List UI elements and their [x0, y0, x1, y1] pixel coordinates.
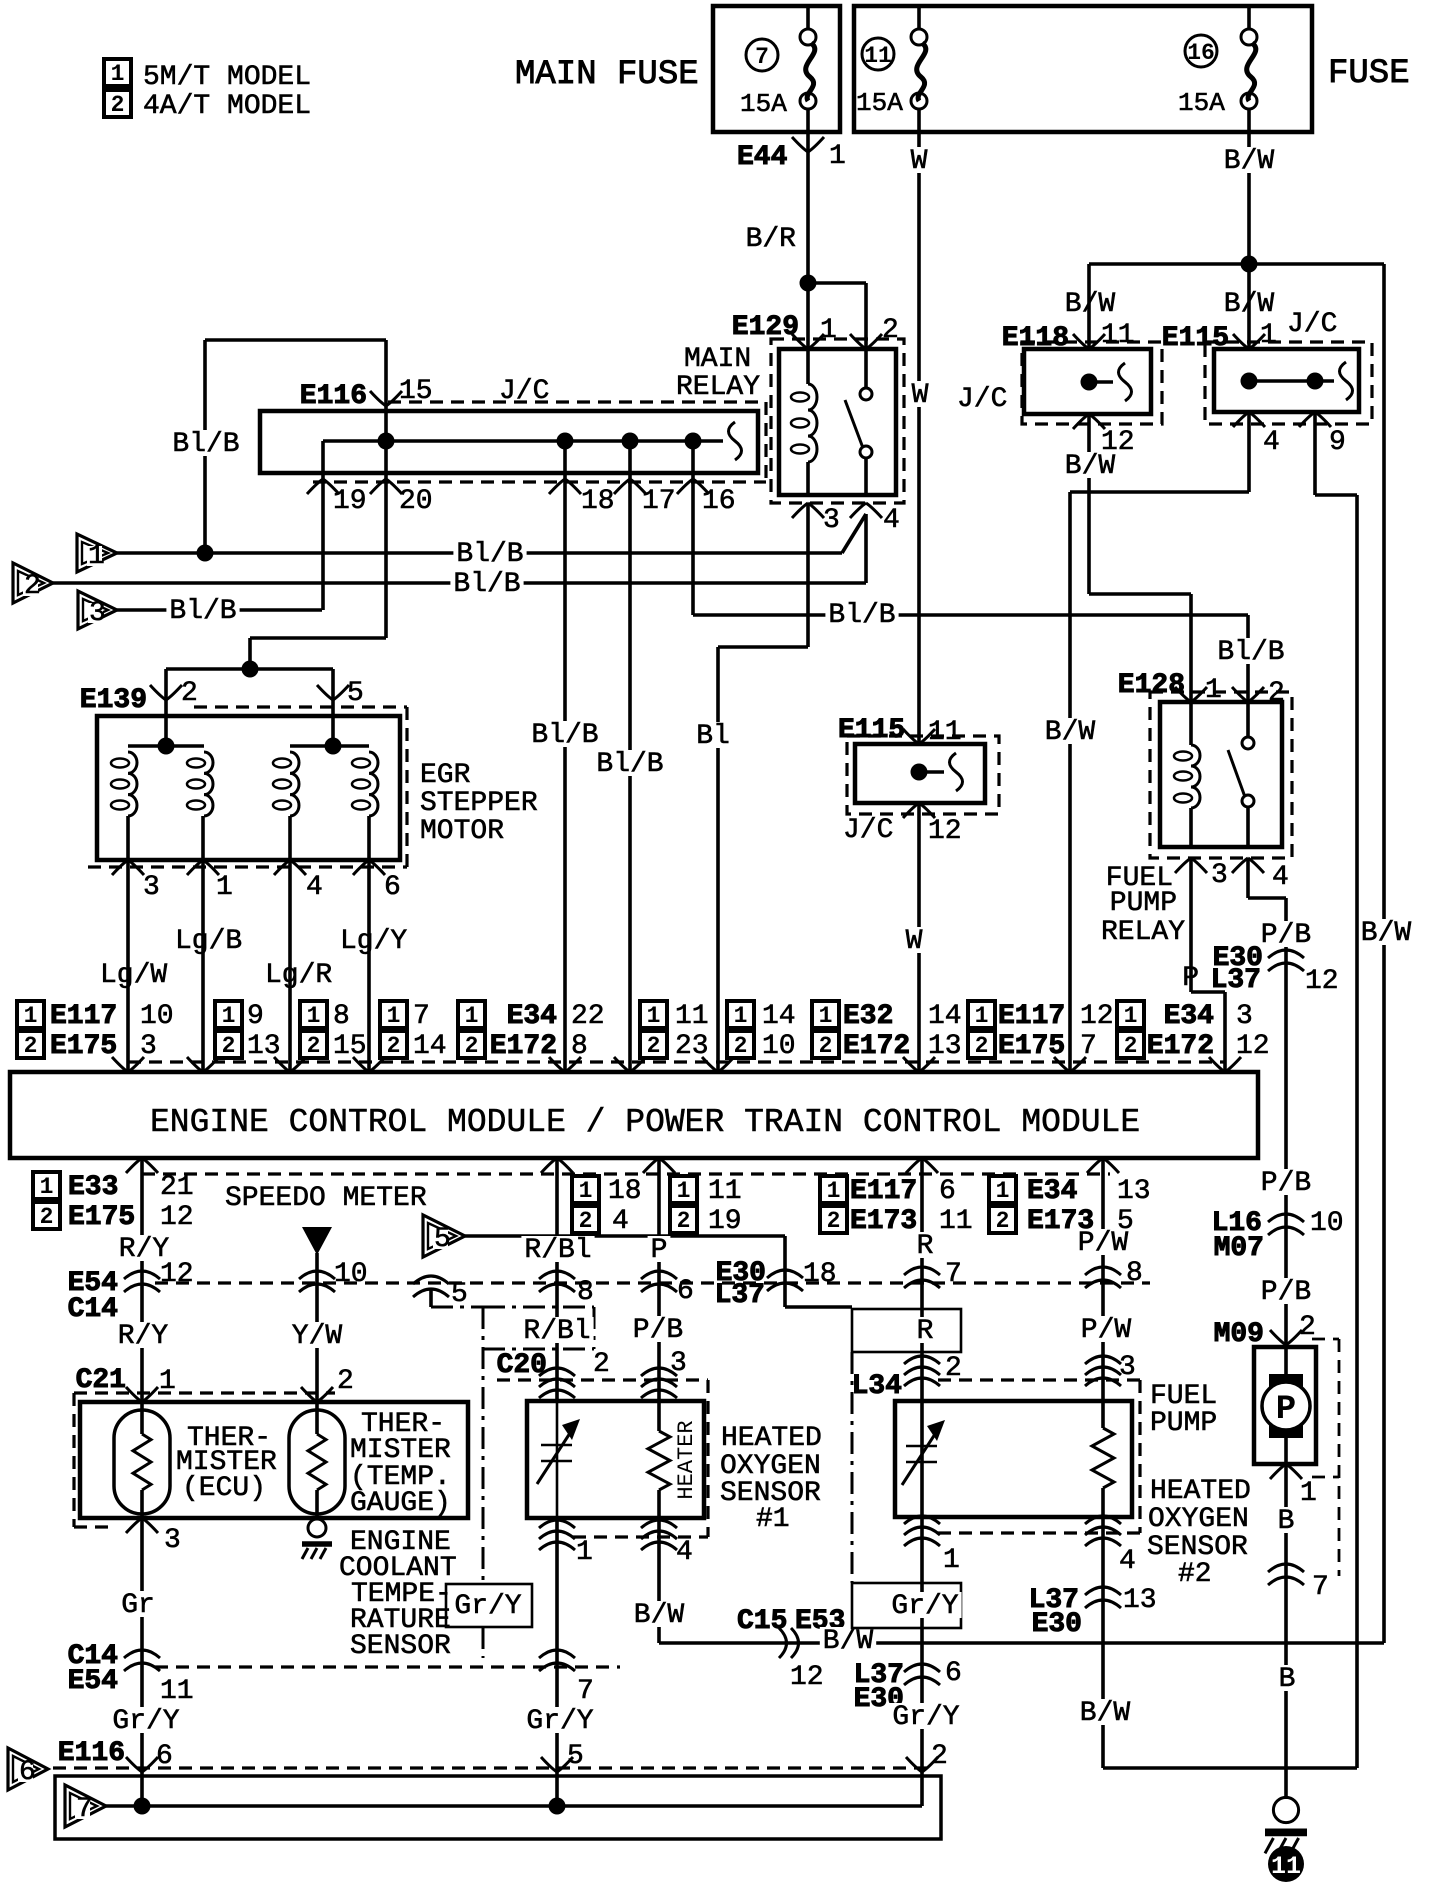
svg-text:#1: #1	[756, 1504, 790, 1535]
svg-text:HEATED: HEATED	[1150, 1476, 1251, 1507]
svg-text:R: R	[917, 1231, 934, 1262]
svg-text:(ECU): (ECU)	[182, 1473, 266, 1504]
ECM top pin at x=630	[614, 1057, 646, 1072]
svg-text:SENSOR: SENSOR	[350, 1631, 451, 1662]
ECM top pin group 9/13	[215, 1001, 242, 1028]
wire R/Bl ECM to HO2S1	[555, 1158, 559, 1401]
svg-text:3: 3	[823, 505, 840, 536]
svg-text:7: 7	[1312, 1572, 1329, 1603]
svg-text:1: 1	[647, 1003, 661, 1029]
ECM top pin group 14/10	[727, 1001, 754, 1028]
pump pin 1	[1270, 1464, 1302, 1479]
svg-text:5: 5	[347, 678, 364, 709]
wire pin19 / triangle 3	[321, 441, 325, 610]
node: B/W branch at y264	[1241, 256, 1258, 273]
B/W bus to right edge	[659, 1641, 1384, 1645]
HO2S2 heater resistor	[1101, 1158, 1105, 1428]
svg-text:P: P	[1276, 1391, 1296, 1429]
svg-text:E30: E30	[1032, 1609, 1082, 1640]
ECM top connector dashed line	[128, 1060, 1225, 1063]
thermistor (ECU)	[114, 1410, 170, 1514]
svg-text:E139: E139	[80, 685, 147, 716]
svg-text:12: 12	[928, 816, 962, 847]
ECM bottom pin at x=1103	[1087, 1158, 1119, 1173]
svg-text:FUSE: FUSE	[1328, 55, 1410, 93]
svg-text:HEATER: HEATER	[674, 1420, 699, 1499]
wire P/W ECM to HO2S2 heater	[1075, 1229, 1131, 1255]
connector pin 7	[904, 1267, 940, 1275]
svg-text:B/W: B/W	[1224, 289, 1275, 320]
ECM top pin at x=718	[702, 1057, 734, 1072]
svg-text:Y/W: Y/W	[292, 1321, 343, 1352]
svg-text:11: 11	[1271, 1852, 1301, 1881]
svg-text:6: 6	[677, 1276, 694, 1307]
main fuse box	[713, 6, 840, 132]
wire Bl/B line 1	[117, 551, 842, 555]
svg-text:R/Bl: R/Bl	[523, 1316, 590, 1347]
svg-text:4A/T MODEL: 4A/T MODEL	[143, 91, 311, 122]
svg-text:14: 14	[762, 1001, 796, 1032]
svg-text:Gr/Y: Gr/Y	[454, 1591, 521, 1622]
svg-text:E117: E117	[50, 1001, 117, 1032]
svg-text:B/W: B/W	[1361, 918, 1412, 949]
HO2S1 pins 1 4	[539, 1520, 575, 1528]
svg-text:4: 4	[1119, 1546, 1136, 1577]
wire B/W bus at y492	[1247, 412, 1251, 492]
svg-text:P/B: P/B	[1261, 920, 1311, 951]
svg-text:18: 18	[581, 486, 615, 517]
svg-text:3: 3	[1119, 1352, 1136, 1383]
svg-text:B: B	[1279, 1664, 1296, 1695]
svg-text:C21: C21	[76, 1365, 126, 1396]
svg-text:7: 7	[1080, 1031, 1097, 1062]
link triangle 7	[65, 1785, 106, 1827]
wire E115 pin9 B/W right drop	[1313, 412, 1317, 495]
svg-text:2: 2	[975, 1033, 989, 1059]
ECM top pin group 11/23	[640, 1001, 667, 1028]
ECM top pin group E34-22/E172-8	[458, 1001, 485, 1028]
svg-text:1: 1	[819, 1003, 833, 1029]
svg-text:17: 17	[642, 486, 676, 517]
svg-text:Gr/Y: Gr/Y	[526, 1706, 593, 1737]
svg-text:3: 3	[143, 872, 160, 903]
ECM bottom group 18/4	[572, 1176, 599, 1203]
connector pin 10	[299, 1271, 335, 1279]
svg-text:2: 2	[40, 1204, 54, 1230]
svg-text:19: 19	[708, 1206, 742, 1237]
svg-text:B/W: B/W	[634, 1600, 685, 1631]
ECM bottom pin at x=142	[126, 1158, 158, 1173]
wire from triangle 5 to E30/L37 pin 18	[465, 1234, 785, 1238]
loop wire Bl/B to E116 pin 15	[203, 340, 207, 553]
svg-text:3: 3	[89, 598, 106, 629]
svg-text:P: P	[651, 1235, 668, 1266]
svg-text:E175: E175	[50, 1031, 117, 1062]
wire pin18 Bl/B to ECM	[563, 441, 567, 1072]
svg-text:MAIN FUSE: MAIN FUSE	[515, 56, 699, 94]
svg-text:18: 18	[608, 1176, 642, 1207]
link triangle 5	[423, 1215, 465, 1257]
svg-text:2: 2	[647, 1033, 661, 1059]
HO2S2 box	[895, 1401, 1132, 1517]
wire E118 pin12 B/W to fuel pump relay coil	[1087, 414, 1091, 594]
svg-text:1: 1	[734, 1003, 748, 1029]
wire relay pin3 Bl down to ECM	[806, 503, 810, 647]
wire B/W from HO2S1 pin 4	[657, 1518, 661, 1643]
svg-text:8: 8	[577, 1277, 594, 1308]
bottom bus box	[55, 1776, 941, 1839]
svg-text:2: 2	[387, 1033, 401, 1059]
svg-text:4: 4	[1263, 427, 1280, 458]
svg-text:3: 3	[1211, 860, 1228, 891]
svg-text:16: 16	[702, 486, 736, 517]
svg-text:10: 10	[334, 1259, 368, 1290]
wire B/R from fuse 7 to main relay	[806, 132, 810, 349]
svg-text:MOTOR: MOTOR	[420, 816, 504, 847]
ECM top pin at x=565	[549, 1057, 581, 1072]
svg-text:P/B: P/B	[633, 1315, 683, 1346]
svg-text:8: 8	[571, 1031, 588, 1062]
B/W bottom jog	[1103, 1766, 1357, 1770]
ECM bottom group E33-21/E175-12	[33, 1172, 60, 1199]
EGR feed bus	[166, 667, 333, 671]
svg-text:2: 2	[222, 1033, 236, 1059]
ECM top pin group 7/14	[380, 1001, 407, 1028]
svg-text:Bl/B: Bl/B	[172, 429, 239, 460]
svg-text:MAIN: MAIN	[684, 344, 751, 375]
svg-text:E34: E34	[1027, 1176, 1077, 1207]
E116 bottom dashed line	[53, 1766, 930, 1769]
ECM top pin at x=919	[903, 1057, 935, 1072]
svg-text:2: 2	[465, 1033, 479, 1059]
svg-text:B/W: B/W	[1080, 1698, 1131, 1729]
ECM bottom connector dashed line	[142, 1172, 1110, 1175]
svg-text:12: 12	[160, 1202, 194, 1233]
ground id 11	[1268, 1846, 1304, 1882]
bus wire	[106, 1804, 922, 1808]
svg-text:12: 12	[790, 1662, 824, 1693]
connector E116 pin 2	[906, 1757, 938, 1772]
svg-text:Bl/B: Bl/B	[828, 600, 895, 631]
ECM bottom group E117-6/E173-11	[820, 1176, 847, 1203]
svg-text:B/R: B/R	[746, 224, 797, 255]
wire P/B from relay pin4	[1246, 858, 1250, 898]
svg-text:W: W	[906, 926, 923, 957]
svg-text:22: 22	[571, 1001, 605, 1032]
wire pin20 down-left to EGR	[250, 636, 386, 640]
svg-text:6: 6	[939, 1176, 956, 1207]
svg-text:1: 1	[820, 315, 837, 346]
svg-text:Bl/B: Bl/B	[531, 720, 598, 751]
svg-text:P/B: P/B	[1261, 1277, 1311, 1308]
svg-text:1: 1	[387, 1003, 401, 1029]
engine control module box	[10, 1072, 1258, 1158]
svg-text:1: 1	[307, 1003, 321, 1029]
harness boundary dash-dot	[431, 1306, 483, 1309]
svg-text:E116: E116	[300, 381, 367, 412]
ECM bottom group 11/19	[670, 1176, 697, 1203]
connector pin 6	[641, 1271, 677, 1279]
svg-text:E32: E32	[843, 1001, 893, 1032]
svg-text:1: 1	[677, 1178, 691, 1204]
svg-text:6: 6	[945, 1658, 962, 1689]
connector E44 pin 1	[792, 137, 824, 152]
svg-text:Lg/B: Lg/B	[175, 926, 242, 957]
connector E30 L37 pin 12	[1268, 950, 1304, 958]
svg-text:Gr/Y: Gr/Y	[112, 1706, 179, 1737]
svg-text:E116: E116	[58, 1738, 125, 1769]
svg-text:R/Bl: R/Bl	[524, 1235, 591, 1266]
svg-text:J/C: J/C	[843, 815, 893, 846]
HO2S2 sensing element (arrow)	[906, 1445, 937, 1448]
svg-text:1: 1	[943, 1545, 960, 1576]
svg-text:4: 4	[612, 1206, 629, 1237]
EGR coil pair B	[290, 744, 369, 748]
svg-text:1: 1	[1124, 1003, 1138, 1029]
svg-text:1: 1	[216, 872, 233, 903]
wire Gr/Y from pin1 to bus	[555, 1518, 559, 1806]
svg-text:L37: L37	[1211, 965, 1261, 996]
svg-text:1: 1	[579, 1178, 593, 1204]
svg-text:2: 2	[593, 1349, 610, 1380]
svg-text:R/Y: R/Y	[118, 1321, 169, 1352]
svg-text:P: P	[1182, 963, 1199, 994]
Gr/Y boundary label box 2	[852, 1583, 961, 1628]
HO2S1 box	[527, 1401, 704, 1518]
wire Bl/B line 3	[117, 608, 322, 612]
svg-text:Bl/B: Bl/B	[1217, 637, 1284, 668]
connector pin 8	[539, 1271, 575, 1279]
pump motor	[1284, 1347, 1288, 1382]
svg-text:2: 2	[882, 315, 899, 346]
wire R/Y ECM to thermistor	[140, 1158, 144, 1434]
svg-text:3: 3	[1236, 1001, 1253, 1032]
svg-text:Lg/R: Lg/R	[265, 960, 332, 991]
svg-text:2: 2	[307, 1033, 321, 1059]
svg-text:15A: 15A	[740, 89, 787, 119]
connector E30/L37 pin 18	[767, 1270, 803, 1278]
svg-text:18: 18	[803, 1259, 837, 1290]
svg-text:6: 6	[384, 872, 401, 903]
ECM top pin group E117/E175	[17, 1001, 44, 1028]
svg-text:9: 9	[1329, 427, 1346, 458]
svg-text:3: 3	[164, 1525, 181, 1556]
svg-text:E34: E34	[507, 1001, 557, 1032]
svg-text:16: 16	[1187, 40, 1215, 66]
wire Bl/B line 2	[53, 581, 866, 585]
svg-text:2: 2	[181, 678, 198, 709]
link triangle 6	[8, 1748, 48, 1790]
svg-text:C15: C15	[737, 1606, 787, 1637]
svg-text:8: 8	[333, 1001, 350, 1032]
ECM top pin at x=203	[187, 1057, 219, 1072]
svg-text:1: 1	[975, 1003, 989, 1029]
svg-text:C14: C14	[68, 1294, 118, 1325]
svg-text:J/C: J/C	[957, 384, 1007, 415]
ground symbol	[1273, 1797, 1298, 1822]
wire P ECM to HO2S1 heater	[657, 1158, 661, 1401]
wire B/W right-edge drop	[1382, 264, 1386, 1643]
svg-text:15: 15	[333, 1031, 367, 1062]
svg-text:12: 12	[1080, 1001, 1114, 1032]
svg-text:2: 2	[827, 1208, 841, 1234]
svg-text:J/C: J/C	[1287, 309, 1337, 340]
svg-text:14: 14	[413, 1031, 447, 1062]
svg-text:23: 23	[675, 1031, 709, 1062]
svg-text:10: 10	[762, 1031, 796, 1062]
EGR coil pair A	[128, 744, 204, 748]
svg-text:11: 11	[939, 1206, 973, 1237]
svg-text:11: 11	[675, 1001, 709, 1032]
svg-text:Bl/B: Bl/B	[596, 749, 663, 780]
svg-text:STEPPER: STEPPER	[420, 788, 538, 819]
svg-text:2: 2	[24, 1033, 38, 1059]
svg-text:1: 1	[24, 1003, 38, 1029]
svg-text:15A: 15A	[1178, 88, 1225, 118]
svg-text:E175: E175	[68, 1202, 135, 1233]
connector pin 7	[539, 1650, 575, 1658]
svg-text:19: 19	[333, 486, 367, 517]
svg-text:#2: #2	[1178, 1559, 1212, 1590]
connector E54/C14 pin 12	[124, 1271, 160, 1279]
svg-text:2: 2	[337, 1366, 354, 1397]
relay coil	[806, 349, 810, 384]
connector C14/E54 pin 11	[124, 1650, 160, 1658]
wire R ECM to HO2S2	[920, 1158, 924, 1806]
svg-text:13: 13	[247, 1031, 281, 1062]
svg-text:R: R	[917, 1316, 934, 1347]
connector L37/E30 pin 13	[1085, 1587, 1121, 1595]
fuse 7 15A	[800, 29, 816, 45]
svg-text:2: 2	[734, 1033, 748, 1059]
svg-text:E33: E33	[68, 1172, 118, 1203]
svg-text:12: 12	[160, 1259, 194, 1290]
svg-text:11: 11	[1101, 320, 1135, 351]
ECM top pin at x=290	[274, 1057, 306, 1072]
svg-text:SPEEDO METER: SPEEDO METER	[225, 1183, 427, 1214]
svg-text:1: 1	[111, 61, 125, 87]
fuse box (right)	[854, 6, 1312, 132]
J/C pins 19 20 18 17 16	[307, 479, 339, 494]
ECM top pin at x=369	[353, 1057, 385, 1072]
HO2S2 pins 1 4	[904, 1516, 940, 1524]
ECM top pin group E32-14/E172-13	[812, 1001, 839, 1028]
svg-text:6: 6	[19, 1757, 36, 1788]
relay coil	[1189, 702, 1193, 745]
svg-text:Lg/Y: Lg/Y	[340, 926, 407, 957]
svg-text:E175: E175	[998, 1031, 1065, 1062]
ECM bottom pin at x=659	[643, 1158, 675, 1173]
svg-text:E54: E54	[68, 1666, 118, 1697]
svg-text:12: 12	[1305, 966, 1339, 997]
link triangle 3	[78, 591, 117, 629]
wire B/W from fuse 16 down	[1247, 132, 1251, 349]
svg-text:13: 13	[1123, 1585, 1157, 1616]
relay switch	[864, 349, 868, 388]
coolant sensor box	[80, 1402, 468, 1518]
link triangle 2	[13, 563, 53, 603]
connector pin 8	[1085, 1267, 1121, 1275]
svg-text:1: 1	[829, 141, 846, 172]
svg-text:Lg/W: Lg/W	[100, 960, 167, 991]
svg-text:1: 1	[576, 1537, 593, 1568]
connector dashed line E54/C14	[155, 1281, 1150, 1284]
svg-text:E117: E117	[850, 1176, 917, 1207]
ground under temp gauge thermistor	[308, 1519, 326, 1537]
svg-text:B/W: B/W	[1045, 717, 1096, 748]
svg-text:GAUGE): GAUGE)	[350, 1488, 451, 1519]
ECM top pin at x=1070	[1054, 1057, 1086, 1072]
svg-text:B: B	[1278, 1506, 1295, 1537]
EGR motor box	[97, 716, 400, 860]
ECM top pin group E34-3/E172-12	[1117, 1001, 1144, 1028]
svg-text:P/B: P/B	[1261, 1168, 1311, 1199]
svg-text:3: 3	[670, 1348, 687, 1379]
svg-text:OXYGEN: OXYGEN	[1148, 1504, 1249, 1535]
svg-text:Bl: Bl	[696, 721, 730, 752]
svg-text:4: 4	[676, 1537, 693, 1568]
relay switch	[1246, 702, 1250, 737]
svg-text:ENGINE CONTROL MODULE / POWER: ENGINE CONTROL MODULE / POWER TRAIN CONT…	[150, 1104, 1140, 1141]
svg-text:21: 21	[160, 1172, 194, 1203]
svg-text:L34: L34	[852, 1371, 902, 1402]
svg-text:E34: E34	[1164, 1001, 1214, 1032]
connector L37/E30 pin 6	[904, 1664, 940, 1672]
svg-text:B/W: B/W	[1224, 146, 1275, 177]
svg-text:PUMP: PUMP	[1110, 888, 1177, 919]
svg-text:E44: E44	[737, 142, 787, 173]
wire P from relay pin3 to ECM	[1189, 858, 1193, 992]
svg-text:E115: E115	[838, 715, 905, 746]
thermistor (temp gauge)	[289, 1410, 345, 1514]
svg-text:1: 1	[88, 541, 105, 572]
svg-text:8: 8	[1126, 1258, 1143, 1289]
svg-text:9: 9	[247, 1001, 264, 1032]
svg-text:1: 1	[827, 1178, 841, 1204]
svg-text:7: 7	[755, 44, 769, 70]
EGR output wires Lg	[126, 816, 130, 1072]
svg-text:W: W	[912, 380, 929, 411]
svg-text:2: 2	[111, 92, 125, 118]
M09 dashed outline	[1312, 1338, 1339, 1341]
svg-text:5M/T MODEL: 5M/T MODEL	[143, 62, 311, 93]
connector E116 pin 5	[541, 1757, 573, 1772]
J/C internal bus	[323, 439, 723, 443]
svg-text:Gr/Y: Gr/Y	[891, 1591, 958, 1622]
svg-text:2: 2	[996, 1208, 1010, 1234]
svg-text:7: 7	[413, 1001, 430, 1032]
svg-text:13: 13	[928, 1031, 962, 1062]
svg-text:5: 5	[451, 1279, 468, 1310]
connector pin 7	[1268, 1564, 1304, 1572]
wire pin16 Bl/B to E128	[691, 441, 695, 615]
svg-text:7: 7	[945, 1259, 962, 1290]
svg-text:EGR: EGR	[420, 760, 471, 791]
svg-text:Bl/B: Bl/B	[169, 596, 236, 627]
HO2S1 sensing element (arrow)	[556, 1401, 559, 1518]
svg-text:W: W	[911, 146, 928, 177]
ECM top pin at x=1225	[1209, 1057, 1241, 1072]
legend 5M/T 4A/T	[104, 59, 131, 86]
ECM bottom pin at x=557	[541, 1158, 573, 1173]
svg-text:PUMP: PUMP	[1150, 1408, 1217, 1439]
node: B/R branch to relay pin 2	[800, 275, 817, 292]
svg-text:E172: E172	[843, 1031, 910, 1062]
svg-text:4: 4	[1272, 862, 1289, 893]
link triangle 1	[77, 534, 117, 572]
svg-text:2: 2	[1124, 1033, 1138, 1059]
svg-text:L37: L37	[715, 1280, 765, 1311]
